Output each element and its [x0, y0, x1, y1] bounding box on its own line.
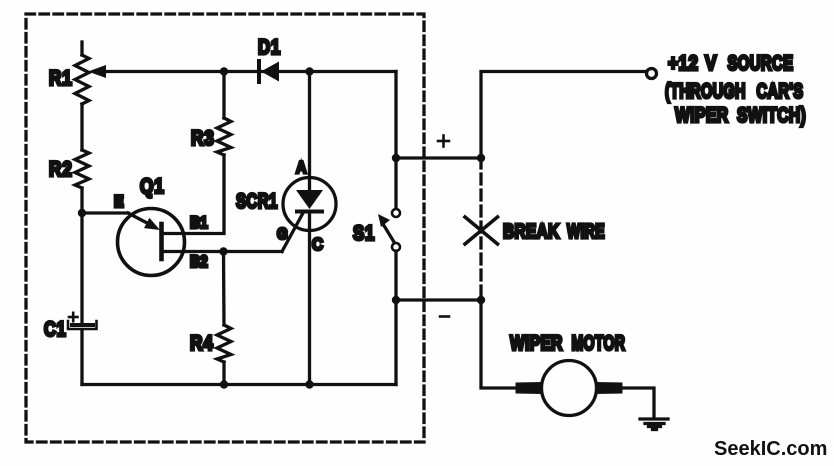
BREAK WIRE label [503, 219, 605, 242]
svg-text:S1: S1 [353, 222, 375, 245]
plus sign label [438, 136, 449, 147]
wire: left rail between R1 and R2 [80, 104, 83, 150]
diode D1 [259, 61, 279, 82]
node: junction top rail / SCR anode [305, 67, 313, 75]
node: junction plus line / source branch [477, 154, 485, 162]
dashed enclosure box [26, 14, 424, 442]
wire: bottom rail [82, 383, 396, 386]
svg-text:V: V [705, 53, 717, 76]
wire: minus line [396, 298, 481, 301]
svg-text:CAR'S: CAR'S [757, 79, 804, 102]
svg-text:A: A [296, 159, 306, 177]
node: junction S1 / minus line [392, 296, 400, 304]
wire: base B1 to R3 branch [162, 155, 225, 234]
svg-text:R2: R2 [49, 159, 73, 182]
svg-text:B1: B1 [190, 214, 208, 233]
wire: S1 branch from top rail down [394, 72, 397, 210]
wire: SCR cathode to bottom rail [308, 230, 311, 385]
WIPER SWITCH) label [675, 103, 806, 127]
svg-text:R1: R1 [49, 68, 73, 91]
wire: R3 top to top rail [222, 72, 225, 119]
C1 polarity plus [69, 313, 78, 321]
svg-text:(THROUGH: (THROUGH [665, 79, 746, 102]
resistor R3 [217, 118, 231, 155]
wire: motor to ground [623, 388, 654, 418]
+12 V SOURCE label [668, 52, 793, 76]
wire: left rail from R2 to C1 [80, 188, 83, 323]
node: junction bottom rail / R4 [220, 380, 228, 388]
node: junction top rail / R3 [220, 67, 228, 75]
svg-text:SOURCE: SOURCE [728, 52, 794, 75]
wire: B2 junction down to R4 [222, 252, 226, 326]
node: junction S1 / plus line [392, 154, 400, 162]
svg-text:C: C [312, 234, 323, 254]
resistor R4 [217, 325, 231, 362]
node: junction B2/R4 [219, 247, 227, 255]
resistor R2 [75, 150, 89, 188]
ground [640, 419, 668, 430]
svg-text:C1: C1 [44, 317, 67, 340]
minus sign label [440, 315, 449, 318]
+12V source terminal [647, 69, 657, 79]
wire: top rail from R1 wiper to S1 branch [103, 70, 396, 73]
svg-text:R4: R4 [190, 333, 214, 356]
svg-text:Q1: Q1 [140, 176, 165, 199]
wire: dashed break wire segment [479, 158, 482, 300]
svg-text:D1: D1 [258, 36, 281, 59]
wire: emitter horizontal [82, 211, 128, 214]
svg-text:BREAK: BREAK [503, 220, 560, 242]
SCR1 [282, 178, 336, 252]
R1 wiper arrow on top wire [88, 65, 106, 78]
wire: motor branch down from minus junction [481, 300, 514, 388]
wire: left rail R1 top stub [80, 42, 83, 55]
node: junction R2/C1/emitter [78, 209, 86, 217]
WIPER MOTOR label [510, 331, 625, 355]
wire: left rail below C1 [80, 330, 83, 385]
svg-text:SCR1: SCR1 [236, 188, 278, 212]
svg-text:B2: B2 [190, 253, 208, 272]
resistor R1 [75, 55, 89, 104]
wire: source branch up and right to terminal [481, 72, 645, 159]
svg-text:SeekIC.com: SeekIC.com [714, 438, 827, 460]
node: junction minus line / motor branch [477, 296, 485, 304]
node: junction bottom rail / SCR cathode [305, 380, 313, 388]
svg-text:+12: +12 [668, 53, 698, 76]
wiper motor [516, 361, 623, 416]
switch S1 [378, 209, 400, 251]
svg-text:MOTOR: MOTOR [572, 331, 626, 354]
break wire X mark [465, 217, 498, 244]
svg-text:WIPER: WIPER [675, 103, 729, 127]
svg-text:WIRE: WIRE [567, 219, 605, 242]
svg-text:E: E [114, 193, 124, 211]
svg-text:WIPER: WIPER [510, 331, 563, 355]
capacitor C1 [68, 321, 97, 329]
wire: R4 bottom to bottom rail [222, 362, 225, 385]
svg-text:SWITCH): SWITCH) [737, 103, 806, 127]
wire: S1 lower to bottom rail [394, 251, 397, 385]
wire: plus line [396, 156, 481, 159]
wire: SCR anode [308, 72, 311, 193]
(THROUGH CAR'S label [665, 79, 803, 102]
svg-text:R3: R3 [191, 128, 215, 151]
wire: base B2 to gate corner [162, 250, 283, 253]
svg-text:G: G [277, 226, 288, 243]
transistor Q1 (UJT) [118, 209, 185, 276]
